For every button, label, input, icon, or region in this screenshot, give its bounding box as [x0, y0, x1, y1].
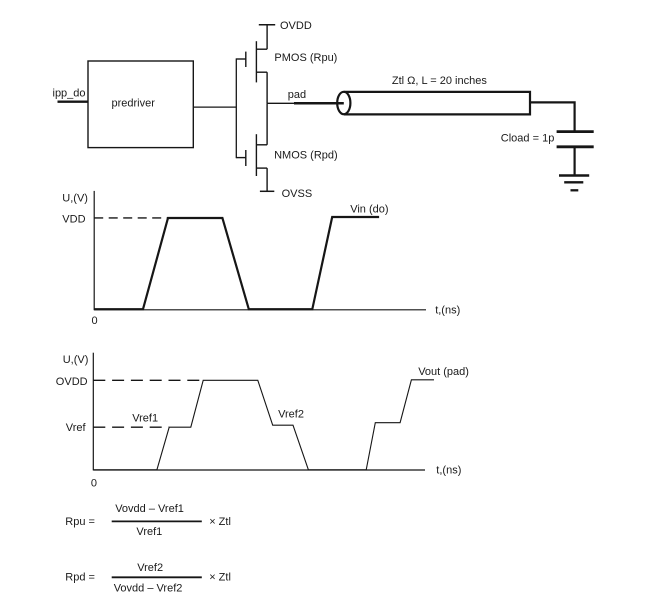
dashed level line OVDD [93, 379, 203, 381]
svg-text:Vout (pad): Vout (pad) [418, 366, 469, 378]
waveform trace Vout (pad) [93, 380, 434, 470]
svg-text:Vref1: Vref1 [136, 526, 162, 538]
svg-text:0: 0 [91, 477, 97, 489]
waveform plot Vout: x axis [93, 469, 425, 471]
transistor Q1 PMOS (Rpu) [236, 25, 267, 104]
power symbol OVSS [260, 190, 274, 192]
waveform trace Vin (do) [94, 217, 379, 309]
svg-text:OVDD: OVDD [56, 376, 88, 388]
svg-text:Ztl Ω, L = 20 inches: Ztl Ω, L = 20 inches [392, 75, 487, 87]
svg-text:Rpd =: Rpd = [65, 571, 95, 583]
svg-text:U,(V): U,(V) [62, 192, 88, 204]
capacitor C1 Cload [557, 132, 594, 147]
svg-text:Vovdd – Vref1: Vovdd – Vref1 [115, 503, 184, 515]
svg-text:predriver: predriver [112, 98, 156, 110]
wire predriver output to gate bus [193, 106, 236, 108]
wire gate bus [235, 58, 237, 158]
svg-text:U,(V): U,(V) [63, 354, 89, 366]
waveform plot Vout: y axis [92, 353, 94, 471]
svg-text:× Ztl: × Ztl [209, 571, 231, 583]
svg-text:Cload = 1p: Cload = 1p [501, 132, 555, 144]
svg-text:t,(ns): t,(ns) [436, 464, 461, 476]
svg-text:× Ztl: × Ztl [209, 516, 231, 528]
svg-text:t,(ns): t,(ns) [435, 305, 460, 317]
svg-text:Vref2: Vref2 [278, 409, 304, 421]
ground [559, 176, 589, 191]
svg-text:Vref1: Vref1 [132, 413, 158, 425]
svg-text:OVDD: OVDD [280, 20, 312, 32]
wire pad thin segment [267, 102, 294, 104]
waveform plot Vin: x axis [94, 309, 426, 311]
wire Cload to ground [573, 147, 575, 176]
svg-text:NMOS (Rpd): NMOS (Rpd) [274, 149, 338, 161]
svg-text:pad: pad [288, 89, 306, 101]
transistor Q2 NMOS (Rpd) [236, 103, 267, 191]
predriver block U1 [88, 61, 193, 148]
svg-text:Vref2: Vref2 [137, 562, 163, 574]
svg-text:OVSS: OVSS [282, 188, 313, 200]
wire tline output to Cload [530, 102, 575, 131]
svg-text:PMOS (Rpu): PMOS (Rpu) [274, 52, 337, 64]
svg-text:ipp_do: ipp_do [53, 88, 86, 100]
svg-text:VDD: VDD [62, 214, 85, 226]
svg-text:Vovdd – Vref2: Vovdd – Vref2 [114, 583, 183, 595]
transmission line TL1 (coax cylinder) [337, 92, 530, 115]
waveform plot Vin: y axis [93, 191, 95, 310]
dashed level line Vref [93, 426, 169, 428]
equation Rpu fraction bar [112, 520, 202, 522]
wire ipp_do input [58, 100, 89, 102]
dashed level line VDD [94, 217, 168, 219]
equation Rpd fraction bar [112, 576, 202, 578]
power symbol OVDD [259, 24, 275, 26]
svg-text:0: 0 [92, 315, 98, 327]
svg-text:Vin (do): Vin (do) [350, 204, 388, 216]
wire pad bold segment to transmission line [294, 102, 344, 105]
svg-text:Vref: Vref [66, 422, 87, 434]
svg-text:Rpu =: Rpu = [65, 516, 95, 528]
